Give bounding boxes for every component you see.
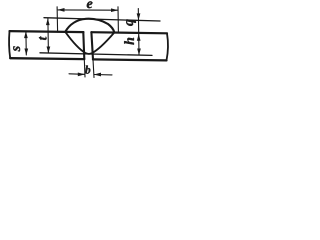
h up arrowhead bbox=[137, 34, 141, 41]
left plate left edge bbox=[9, 31, 10, 58]
label t (rotated) bbox=[39, 36, 46, 40]
e right arrowhead bbox=[111, 8, 118, 12]
apex tangent reference line bbox=[44, 18, 160, 21]
right plate bottom edge bbox=[93, 59, 167, 60]
left plate top edge bbox=[10, 30, 84, 33]
dimension q line lower segment bbox=[138, 20, 140, 34]
t down arrowhead bbox=[47, 47, 51, 54]
dimension s line bbox=[25, 32, 27, 55]
label e bbox=[87, 1, 93, 8]
root tangent reference line bbox=[40, 53, 152, 56]
weld fusion boundary (U through plates) bbox=[66, 32, 115, 54]
right plate top edge bbox=[91, 32, 167, 33]
b right arrow line bbox=[94, 74, 112, 76]
dimension t line bbox=[47, 19, 50, 53]
e right extension line bbox=[117, 7, 119, 33]
e left extension line bbox=[56, 7, 59, 32]
e left arrowhead bbox=[57, 8, 64, 12]
dimension q upper arrow line bbox=[137, 9, 139, 20]
q down arrowhead bbox=[137, 13, 141, 20]
right plate gap-side edge bbox=[91, 32, 93, 59]
label q (rotated) bbox=[126, 19, 136, 25]
b left arrowhead bbox=[78, 73, 85, 77]
label s (rotated) bbox=[13, 46, 20, 51]
left plate gap-side edge bbox=[83, 32, 84, 59]
b right extension line bbox=[93, 59, 94, 77]
b left arrow line bbox=[69, 73, 84, 76]
weld bead dome outline bbox=[65, 19, 114, 33]
label h (rotated) bbox=[124, 38, 134, 45]
label b bbox=[85, 66, 90, 74]
right plate right edge bbox=[167, 33, 168, 60]
dimension h line bbox=[138, 34, 140, 55]
s down arrowhead bbox=[24, 49, 28, 56]
b left extension line bbox=[83, 59, 86, 77]
dimension e line bbox=[58, 9, 118, 11]
t up arrowhead bbox=[46, 18, 50, 25]
h down arrowhead bbox=[137, 49, 141, 56]
s up arrowhead bbox=[24, 31, 28, 38]
left plate bottom edge bbox=[10, 57, 84, 60]
b right arrowhead bbox=[94, 73, 101, 77]
